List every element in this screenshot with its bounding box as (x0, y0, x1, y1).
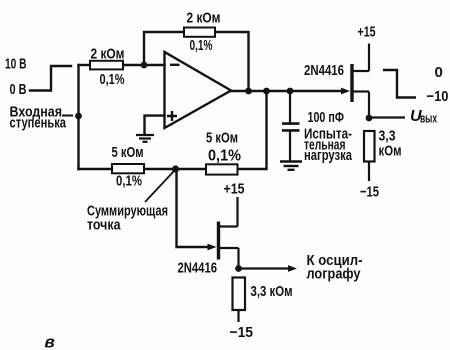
svg-text:вых: вых (420, 111, 437, 126)
svg-text:0,1%: 0,1% (190, 37, 213, 54)
svg-text:0,1%: 0,1% (100, 71, 125, 88)
svg-text:−10: −10 (427, 88, 449, 105)
svg-text:0,1%: 0,1% (208, 148, 241, 165)
ground at op-amp noninverting input (136, 135, 154, 142)
wire feedback loop right (215, 32, 249, 91)
wire to U вых label (369, 116, 405, 118)
svg-text:+15: +15 (358, 24, 376, 41)
wire R4 to right vertical riser (238, 91, 267, 169)
node oscilloscope tap dot (235, 265, 242, 272)
node capacitor tap dot (287, 88, 294, 95)
resistor R4 5 кОм box (206, 164, 238, 174)
wire summing point down to Q2 gate (177, 169, 208, 247)
node output follower dot (366, 115, 373, 122)
resistor R5 3,3 кОм box (233, 278, 246, 323)
svg-text:2N4416: 2N4416 (304, 62, 344, 79)
transistor Q2 gate arrowhead (208, 244, 217, 251)
summing point dot (172, 165, 179, 172)
node inverting input junction (141, 62, 148, 69)
output step waveform (383, 70, 416, 98)
input step waveform symbol (30, 66, 71, 91)
resistor R6 3,3 кОм box (364, 131, 375, 181)
node feedback tap dot (245, 88, 252, 95)
capacitor C1 100 пФ (282, 91, 300, 161)
transistor Q2 2N4416 body (219, 197, 239, 269)
resistor R2 2 кОм feedback box (184, 28, 215, 37)
wire output of op-amp to Q1 gate (231, 90, 344, 92)
node riser tap dot (263, 88, 270, 95)
resistor R3 5 кОм box (112, 164, 144, 173)
svg-text:ступенька: ступенька (10, 115, 67, 132)
callout diagonal to summing label (145, 171, 174, 202)
svg-text:0,1%: 0,1% (116, 173, 142, 190)
svg-text:+15: +15 (224, 181, 245, 198)
svg-text:2 кОм: 2 кОм (187, 10, 221, 27)
transistor Q1 2N4416 body (352, 44, 369, 119)
svg-text:кОм: кОм (379, 143, 402, 160)
svg-text:0 В: 0 В (10, 81, 27, 98)
callout line from label to input node (62, 115, 73, 117)
svg-text:нагрузка: нагрузка (304, 147, 352, 164)
svg-text:лографу: лографу (307, 266, 362, 283)
op-amp U1 triangle (165, 52, 232, 128)
svg-text:в: в (45, 333, 55, 350)
arrow к осциллографу (239, 267, 290, 269)
svg-text:10 В: 10 В (5, 56, 27, 73)
svg-text:5 кОм: 5 кОм (206, 130, 238, 147)
transistor Q1 gate arrowhead (341, 88, 350, 95)
wire noninverting input (145, 116, 165, 134)
ground at capacitor (280, 162, 302, 170)
svg-text:2 кОм: 2 кОм (91, 46, 125, 63)
wire input node vertical (77, 65, 79, 169)
resistor R1 2 кОм box (90, 61, 123, 70)
wire R1 to op-amp inverting input (123, 64, 165, 66)
svg-text:5 кОм: 5 кОм (112, 144, 144, 161)
svg-text:−15: −15 (360, 184, 379, 201)
svg-text:2N4416: 2N4416 (178, 260, 218, 277)
svg-text:−15: −15 (230, 324, 254, 341)
wire bottom loop left (79, 168, 113, 170)
svg-text:точка: точка (87, 217, 121, 234)
svg-text:3,3 кОм: 3,3 кОм (251, 283, 293, 300)
wire R3 to summing point to R4 (144, 168, 206, 170)
svg-text:100 пФ: 100 пФ (308, 109, 345, 126)
svg-text:0: 0 (435, 64, 443, 81)
node input junction dot (75, 113, 82, 120)
wire feedback loop left and top (144, 32, 184, 65)
wire into resistor R1 (79, 64, 91, 66)
